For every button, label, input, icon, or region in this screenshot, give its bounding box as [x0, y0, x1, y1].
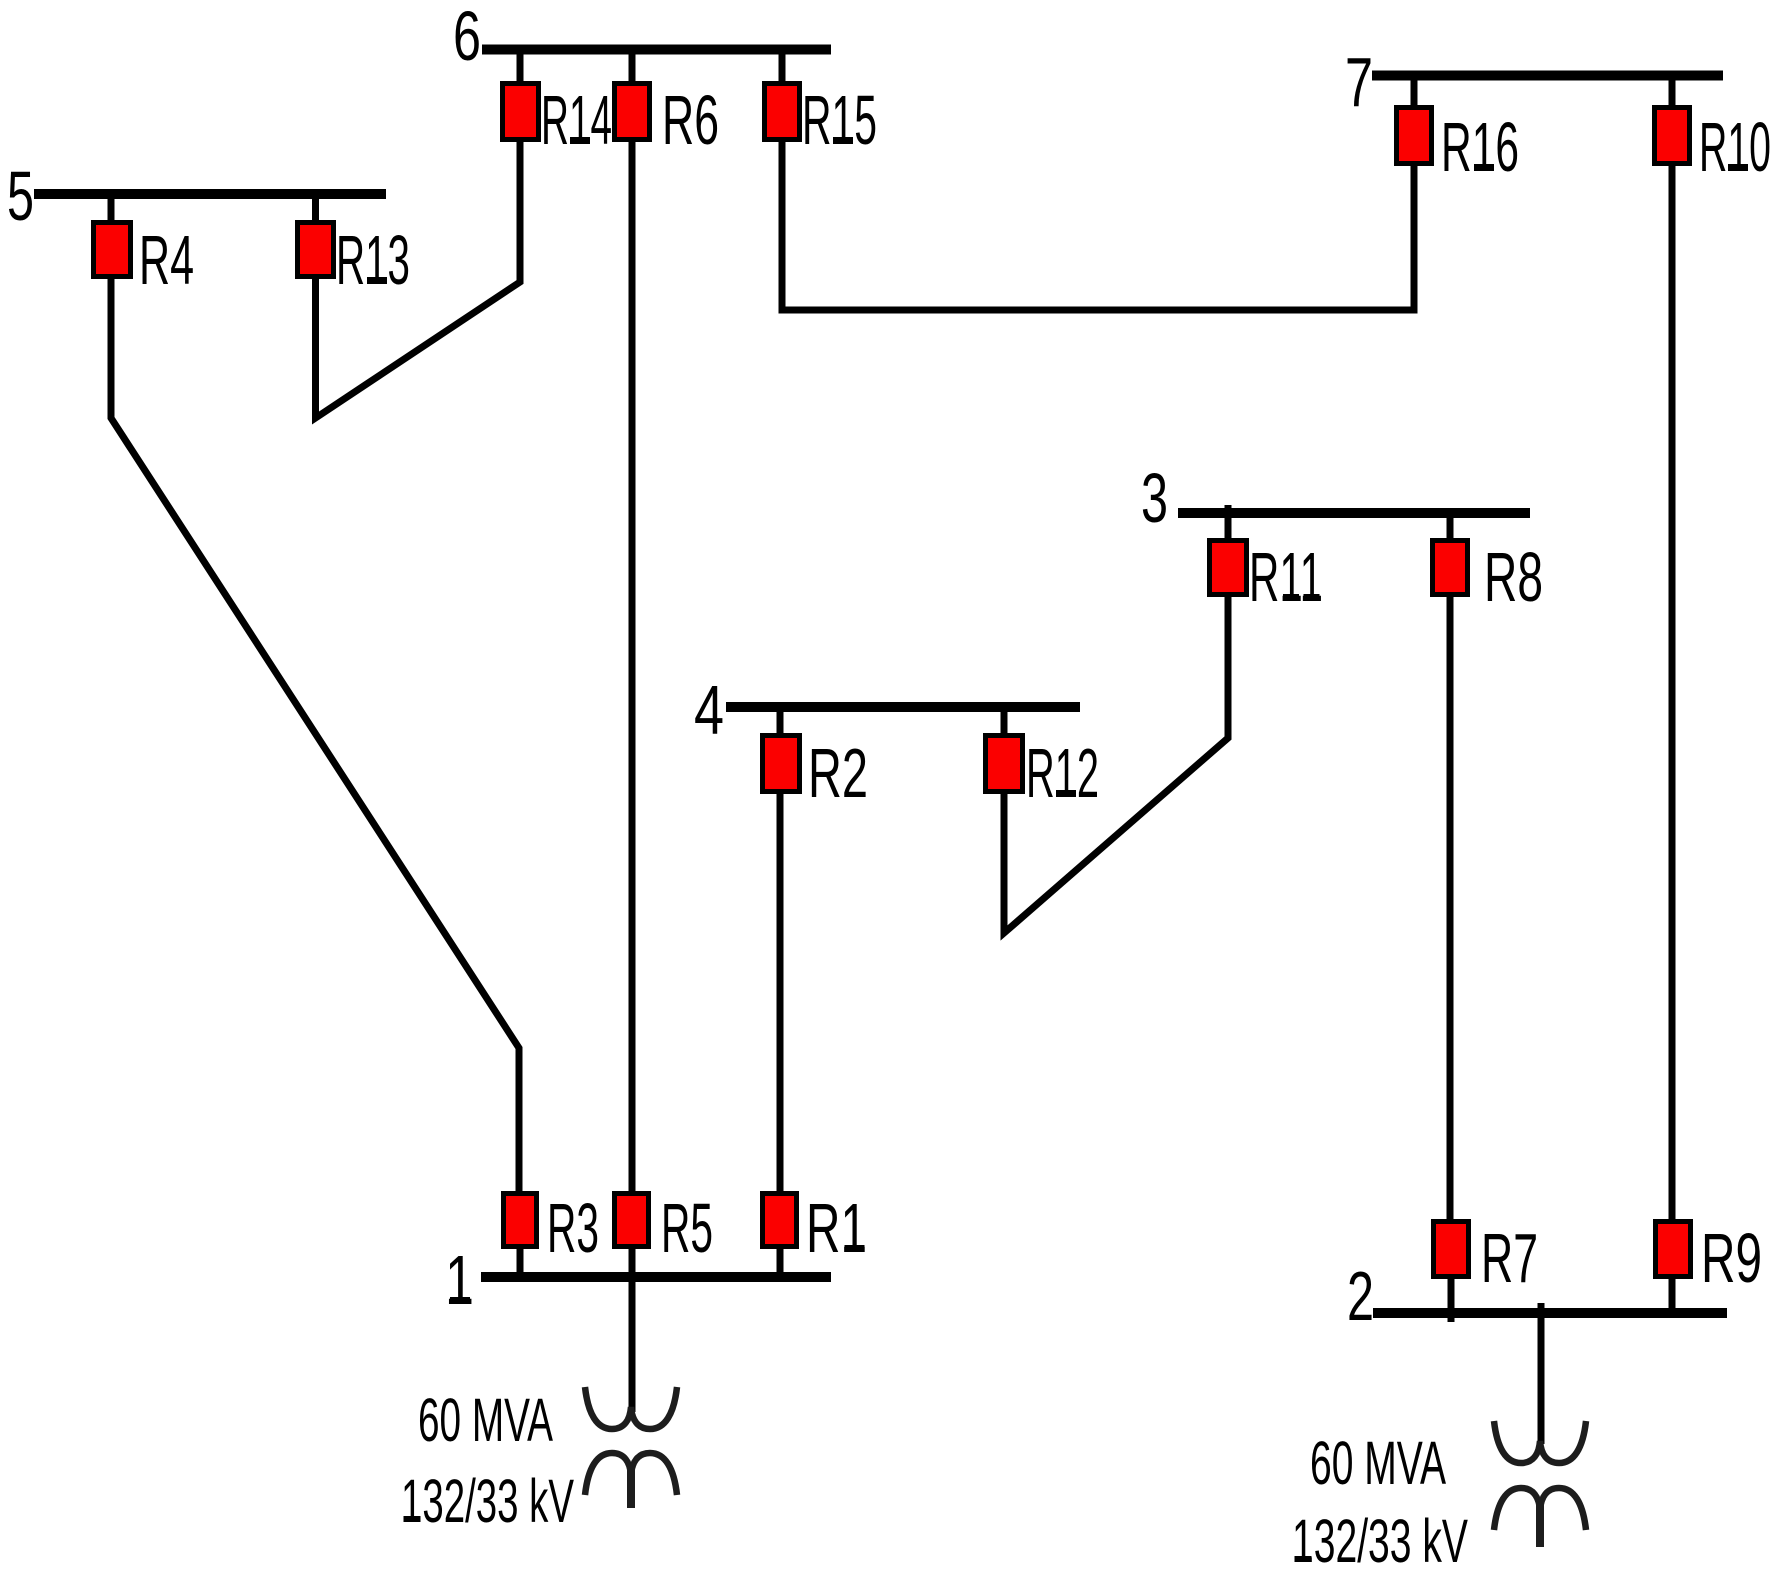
relay R10	[1655, 75, 1772, 186]
svg-text:2: 2	[1347, 1257, 1374, 1335]
bus 2	[1373, 1308, 1727, 1318]
wire R4 to R3 (long diagonal)	[111, 279, 519, 1192]
svg-text:R11: R11	[1249, 538, 1323, 616]
transformer T2 stem	[1536, 1505, 1544, 1547]
label R11 first "1" foot	[1283, 594, 1299, 601]
svg-text:3: 3	[1141, 459, 1168, 537]
wire R8 to R7	[1447, 597, 1454, 1219]
svg-text:132/33 kV: 132/33 kV	[1292, 1507, 1468, 1575]
relay R15	[765, 49, 878, 159]
wire R10 to R9	[1669, 166, 1676, 1219]
bus 3	[1178, 508, 1530, 518]
svg-text:5: 5	[7, 157, 34, 235]
relay R2	[763, 707, 869, 812]
label T1 "132" foot	[404, 1516, 421, 1522]
svg-text:R3: R3	[547, 1189, 599, 1267]
relay R14	[503, 49, 613, 159]
transformer T1 winding top	[585, 1387, 677, 1429]
bus 5	[34, 189, 386, 199]
svg-text:R1: R1	[806, 1189, 867, 1267]
svg-text:R7: R7	[1481, 1219, 1538, 1297]
bus 7	[1372, 71, 1723, 81]
bus 4	[726, 702, 1080, 712]
svg-text:60 MVA: 60 MVA	[418, 1386, 553, 1454]
relay R16	[1397, 75, 1520, 186]
label T2 "132" foot	[1295, 1556, 1312, 1562]
wire R15 to R16	[782, 142, 1414, 310]
relay R13	[298, 194, 411, 299]
label R11 second "1" foot	[1304, 594, 1320, 601]
bus 6	[482, 45, 831, 55]
svg-text:R16: R16	[1441, 108, 1519, 186]
relay R7	[1434, 1219, 1539, 1322]
transformer T1 stem	[627, 1470, 635, 1508]
relay R1	[763, 1189, 868, 1277]
bus 1	[481, 1272, 831, 1282]
relay R8	[1433, 513, 1544, 616]
relay R5	[615, 1189, 714, 1267]
relay R3	[504, 1189, 600, 1277]
svg-text:R14: R14	[541, 81, 612, 159]
svg-text:R2: R2	[808, 734, 868, 812]
svg-text:R6: R6	[662, 81, 719, 159]
wire R14 to R13 (via elbow)	[316, 142, 521, 418]
wire R2 to R1	[777, 794, 784, 1191]
svg-text:60 MVA: 60 MVA	[1310, 1429, 1446, 1497]
svg-text:R5: R5	[661, 1189, 713, 1267]
relay R12	[986, 707, 1100, 812]
svg-text:132/33 kV: 132/33 kV	[401, 1467, 574, 1535]
bus 1 label "1" foot	[450, 1297, 470, 1304]
svg-text:6: 6	[453, 0, 481, 75]
svg-text:R15: R15	[802, 81, 877, 159]
label R12 "1" foot	[1056, 790, 1076, 797]
svg-text:R8: R8	[1484, 538, 1543, 616]
transformer T2 winding top	[1494, 1421, 1586, 1463]
relay R9	[1656, 1219, 1763, 1313]
svg-text:R10: R10	[1699, 108, 1771, 186]
label R14 "1" foot	[570, 137, 590, 144]
relay R11	[1210, 505, 1324, 616]
svg-text:7: 7	[1345, 43, 1373, 121]
label R16 "1" foot	[1474, 164, 1494, 171]
svg-text:R13: R13	[336, 221, 410, 299]
label R1 "1" foot	[845, 1245, 865, 1252]
wire R6 to R5	[629, 142, 636, 1191]
svg-text:4: 4	[694, 671, 724, 749]
svg-text:1: 1	[445, 1241, 474, 1319]
svg-text:R9: R9	[1701, 1219, 1762, 1297]
transformer T1 winding bottom	[585, 1453, 677, 1495]
relay R6	[615, 49, 720, 159]
relay R4	[94, 194, 195, 299]
transformer T2 winding bottom	[1494, 1488, 1586, 1530]
svg-text:R12: R12	[1026, 734, 1099, 812]
wire bus1 to transformer T1	[629, 1249, 636, 1412]
wire bus2 to transformer T2	[1538, 1303, 1545, 1444]
wire R11 to R12 (via elbow)	[1004, 597, 1228, 933]
label R15 "1" foot	[833, 137, 853, 144]
svg-text:R4: R4	[139, 221, 194, 299]
label R13 "1" foot	[367, 277, 387, 284]
label R10 "1" foot	[1728, 164, 1748, 171]
